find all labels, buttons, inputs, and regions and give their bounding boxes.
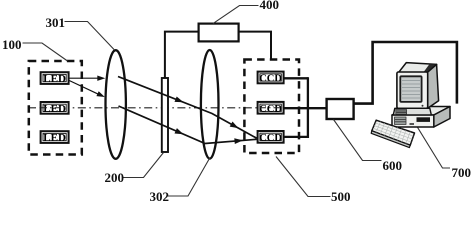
svg-text:LED: LED bbox=[43, 103, 66, 115]
CCD 3 box bbox=[258, 131, 284, 143]
pedestal grille bbox=[396, 110, 407, 115]
leader 100 bbox=[23, 43, 68, 61]
label 302 bbox=[150, 190, 170, 203]
leader 200 bbox=[123, 153, 164, 178]
interface box 600 bbox=[327, 99, 354, 119]
arrowhead ray1 bbox=[97, 76, 105, 81]
bus stub CCD2 / wire to box 600 bbox=[284, 107, 327, 109]
label 700 bbox=[452, 166, 472, 179]
lens 301 (ellipse) bbox=[106, 50, 126, 159]
CCD 1 box bbox=[258, 72, 284, 84]
leader 500 bbox=[276, 157, 331, 197]
arrowhead upper ray at slit bbox=[175, 97, 184, 103]
axis through LED2 bbox=[41, 107, 68, 109]
arrowhead upper ray after lens302 bbox=[230, 122, 239, 129]
svg-text:LED: LED bbox=[43, 132, 66, 144]
bus vertical bbox=[307, 77, 309, 138]
arrowhead lower ray after lens302 bbox=[234, 138, 243, 144]
computer 700 (desktop PC clipart) bbox=[392, 63, 450, 127]
control box 400 bbox=[199, 24, 239, 42]
wire slit-top to box 400 left bbox=[165, 32, 199, 78]
label 100 bbox=[2, 38, 22, 51]
monitor right face bbox=[427, 64, 438, 108]
CCD 2 box bbox=[258, 102, 284, 114]
ray: LED1 diagonal to lens301 bbox=[69, 81, 101, 96]
pc case vents bbox=[395, 117, 407, 125]
pc case right face bbox=[434, 107, 450, 128]
converging ray upper (lens301 to lens302 to CCD3) bbox=[118, 77, 257, 139]
LED 1 box bbox=[41, 72, 69, 84]
CCD module dashed box 500 bbox=[244, 60, 299, 154]
monitor top vent dark bbox=[424, 64, 436, 72]
converging ray lower (lens301 to lens302 to CCD3) bbox=[119, 106, 257, 144]
label 200 bbox=[105, 171, 125, 184]
keyboard bbox=[371, 120, 414, 147]
pc case front face bbox=[392, 115, 434, 127]
leader 600 bbox=[334, 120, 382, 161]
slit plate 200 bbox=[162, 78, 168, 152]
svg-text:CCD: CCD bbox=[259, 74, 282, 85]
monitor screen bbox=[400, 76, 421, 102]
wire box600 to computer 700 bbox=[354, 42, 457, 104]
pc button bbox=[410, 123, 415, 125]
svg-text:CCD: CCD bbox=[259, 104, 282, 115]
bus stub CCD3 bbox=[284, 136, 308, 138]
label 301 bbox=[46, 16, 66, 29]
bus stub CCD1 bbox=[284, 77, 308, 79]
label 500 bbox=[331, 190, 351, 203]
svg-text:LED: LED bbox=[43, 73, 66, 85]
svg-text:CCD: CCD bbox=[259, 133, 282, 144]
label 600 bbox=[383, 159, 403, 172]
leader 302 bbox=[168, 158, 210, 197]
label 400 bbox=[260, 0, 280, 11]
monitor pedestal bbox=[393, 108, 431, 115]
ray: LED1 horizontal to lens301 bbox=[69, 77, 102, 79]
monitor front face bbox=[397, 72, 428, 108]
LED 2 box bbox=[41, 102, 69, 114]
leader 400 bbox=[213, 6, 259, 24]
pc floppy slot bbox=[417, 117, 431, 122]
pc case top face bbox=[392, 107, 450, 116]
leader 301 bbox=[65, 22, 115, 51]
LED 3 box bbox=[41, 131, 69, 143]
lens 302 (ellipse) bbox=[201, 50, 219, 159]
arrowhead ray2 bbox=[96, 91, 104, 97]
monitor power button bbox=[422, 105, 424, 107]
LED module dashed box 100 bbox=[29, 61, 82, 155]
axis through CCD2 bbox=[260, 107, 283, 109]
optical axis (dash-dot centerline) bbox=[28, 107, 284, 109]
wire box400 right to dashed box 500 top bbox=[239, 32, 271, 61]
monitor top face bbox=[399, 63, 437, 73]
arrowhead lower ray at slit bbox=[175, 128, 184, 134]
leader 700 bbox=[413, 120, 450, 168]
